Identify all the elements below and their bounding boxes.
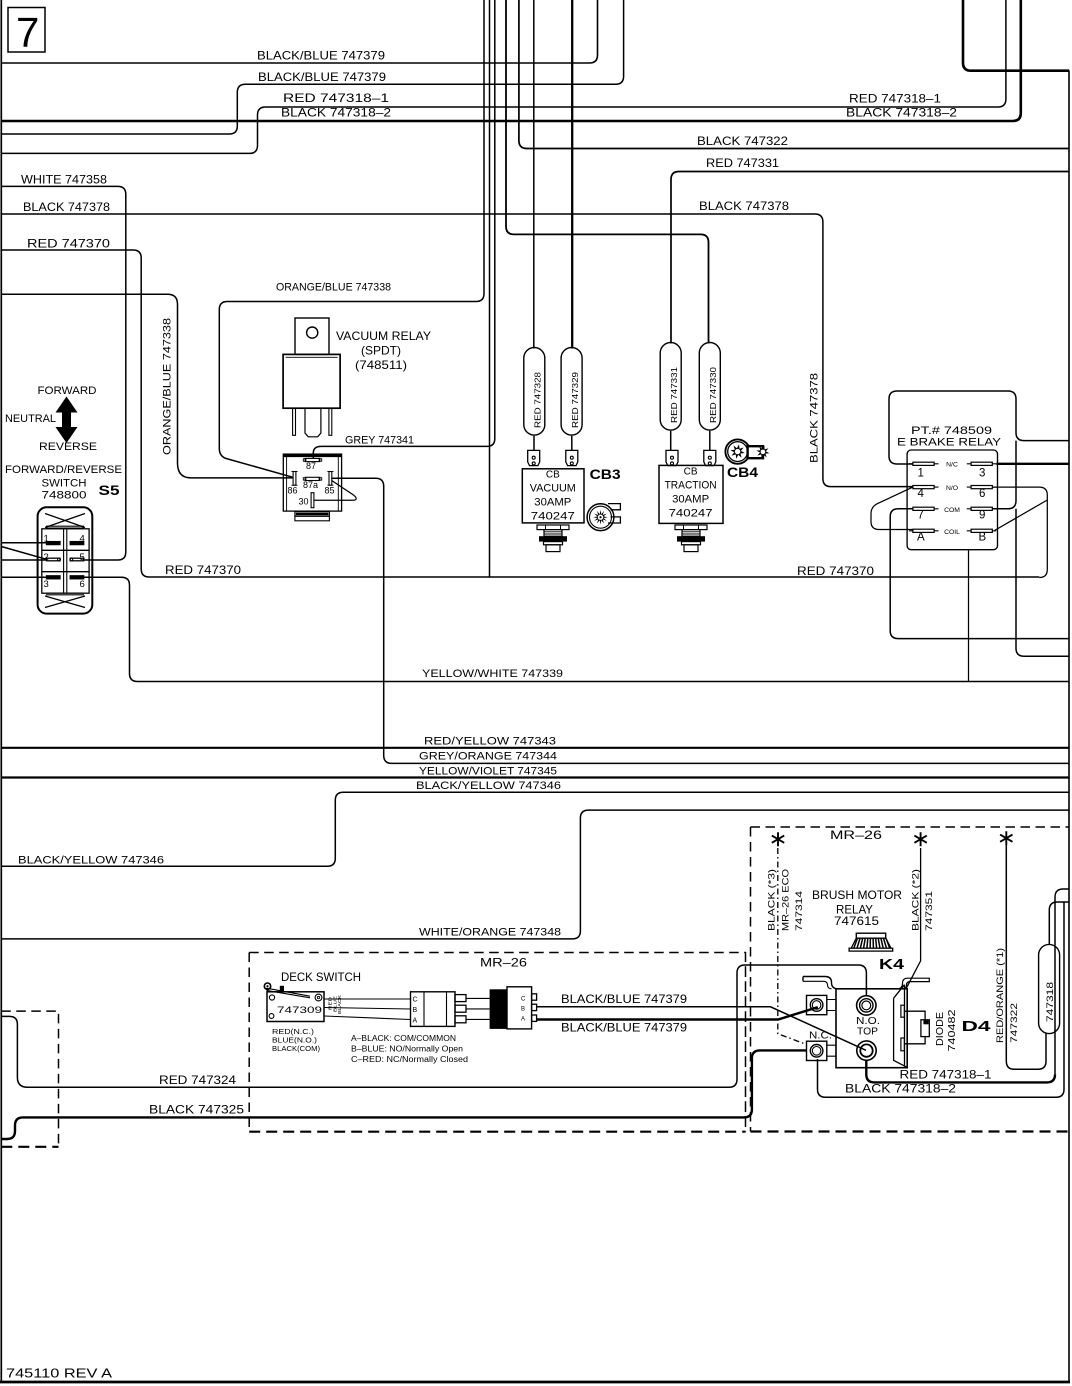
svg-text:N/O: N/O [946, 485, 958, 492]
svg-text:VACUUM: VACUUM [530, 483, 576, 495]
svg-text:747615: 747615 [834, 914, 879, 928]
svg-text:B: B [521, 1007, 525, 1013]
svg-text:2: 2 [44, 552, 49, 563]
svg-text:740482: 740482 [947, 1009, 958, 1052]
svg-text:BLACK 747318–2: BLACK 747318–2 [846, 106, 957, 120]
svg-text:BLACK 747318–2: BLACK 747318–2 [281, 106, 391, 120]
svg-text:GREY/ORANGE 747344: GREY/ORANGE 747344 [419, 751, 557, 763]
svg-text:A: A [413, 1018, 418, 1025]
svg-text:RED 747330: RED 747330 [708, 367, 718, 423]
svg-text:30AMP: 30AMP [672, 494, 709, 506]
svg-text:YELLOW/VIOLET 747345: YELLOW/VIOLET 747345 [419, 766, 557, 778]
svg-text:YELLOW/WHITE 747339: YELLOW/WHITE 747339 [422, 668, 563, 680]
svg-text:BRUSH MOTOR: BRUSH MOTOR [812, 888, 902, 902]
svg-text:(748511): (748511) [355, 358, 407, 372]
svg-text:RED 747331: RED 747331 [706, 156, 779, 170]
svg-text:MR–26: MR–26 [480, 956, 527, 970]
svg-text:87: 87 [306, 461, 316, 471]
svg-text:740247: 740247 [531, 511, 575, 523]
svg-text:RED 747328: RED 747328 [533, 372, 543, 428]
svg-text:7: 7 [918, 510, 924, 522]
svg-text:D4: D4 [962, 1018, 992, 1035]
svg-text:A–BLACK: COM/COMMON: A–BLACK: COM/COMMON [351, 1034, 456, 1043]
svg-text:BLACK 747325: BLACK 747325 [149, 1103, 244, 1117]
svg-text:86: 86 [288, 486, 298, 496]
svg-text:BLACK 747378: BLACK 747378 [809, 373, 821, 463]
svg-text:MR–26: MR–26 [830, 828, 882, 842]
svg-text:RED 747370: RED 747370 [165, 563, 241, 577]
svg-text:747351: 747351 [924, 891, 934, 931]
svg-text:WHITE 747358: WHITE 747358 [21, 173, 107, 187]
svg-text:RED 747318–1: RED 747318–1 [849, 92, 941, 106]
svg-text:747314: 747314 [794, 891, 804, 931]
svg-text:B–BLUE: NO/Normally Open: B–BLUE: NO/Normally Open [351, 1045, 463, 1054]
svg-text:ORANGE/BLUE 747338: ORANGE/BLUE 747338 [162, 318, 174, 455]
svg-text:747318: 747318 [1045, 982, 1056, 1022]
svg-text:30: 30 [299, 497, 309, 507]
svg-text:TRACTION: TRACTION [665, 480, 717, 492]
svg-text:(SPDT): (SPDT) [361, 344, 401, 358]
svg-text:A: A [521, 1017, 525, 1023]
svg-text:BLACK/YELLOW 747346: BLACK/YELLOW 747346 [416, 780, 561, 792]
svg-text:C–RED: NC/Normally Closed: C–RED: NC/Normally Closed [351, 1055, 468, 1064]
svg-text:7: 7 [16, 9, 39, 56]
svg-text:85: 85 [325, 486, 335, 496]
svg-text:BLACK 747378: BLACK 747378 [23, 200, 110, 214]
svg-text:TOP: TOP [857, 1027, 878, 1038]
svg-text:C: C [521, 997, 526, 1003]
svg-text:BLACK 747318–2: BLACK 747318–2 [845, 1082, 956, 1096]
svg-text:A: A [917, 532, 925, 544]
svg-text:N/C: N/C [946, 462, 958, 469]
svg-text:RED/YELLOW 747343: RED/YELLOW 747343 [424, 736, 556, 748]
svg-text:SWITCH: SWITCH [42, 478, 87, 490]
svg-text:9: 9 [979, 510, 985, 522]
svg-text:PT.# 748509: PT.# 748509 [911, 425, 992, 437]
svg-text:747309: 747309 [277, 1005, 322, 1016]
svg-text:RED 747331: RED 747331 [669, 367, 679, 423]
svg-text:B: B [413, 1007, 418, 1014]
svg-text:748800: 748800 [42, 490, 87, 502]
svg-text:3: 3 [44, 579, 49, 590]
svg-text:DIODE: DIODE [935, 1012, 946, 1046]
svg-text:BLACK/YELLOW 747346: BLACK/YELLOW 747346 [18, 854, 164, 866]
svg-text:BLACK(COM): BLACK(COM) [272, 1044, 321, 1053]
svg-text:DECK SWITCH: DECK SWITCH [281, 970, 361, 984]
svg-text:BLACK/BLUE 747379: BLACK/BLUE 747379 [258, 70, 386, 84]
svg-text:K4: K4 [879, 956, 905, 973]
svg-text:COM: COM [944, 507, 960, 514]
svg-text:87a: 87a [303, 480, 318, 490]
svg-text:RED/ORANGE (*1): RED/ORANGE (*1) [995, 948, 1005, 1043]
svg-text:BLACK 747378: BLACK 747378 [699, 199, 789, 213]
svg-text:RED 747318–1: RED 747318–1 [900, 1068, 992, 1082]
svg-text:NEUTRAL: NEUTRAL [5, 413, 56, 425]
svg-text:COIL: COIL [944, 529, 960, 536]
svg-text:CB: CB [684, 467, 698, 478]
svg-text:6: 6 [80, 579, 85, 590]
svg-text:BLACK (*3): BLACK (*3) [767, 869, 777, 931]
svg-text:B: B [979, 532, 987, 544]
svg-text:6: 6 [979, 488, 985, 500]
svg-text:BLACK (*2): BLACK (*2) [911, 869, 921, 931]
svg-text:1: 1 [918, 468, 924, 480]
svg-text:CB4: CB4 [727, 465, 759, 480]
svg-text:CB3: CB3 [590, 467, 622, 482]
svg-text:ORANGE/BLUE 747338: ORANGE/BLUE 747338 [276, 282, 391, 294]
svg-text:N.O.: N.O. [856, 1016, 880, 1027]
svg-text:S5: S5 [99, 482, 120, 498]
svg-text:RED 747370: RED 747370 [27, 236, 110, 250]
svg-text:3: 3 [979, 468, 985, 480]
svg-text:WHITE/ORANGE 747348: WHITE/ORANGE 747348 [419, 927, 561, 939]
svg-text:N.C.: N.C. [809, 1031, 832, 1042]
svg-text:RED 747318–1: RED 747318–1 [283, 91, 389, 105]
svg-text:REVERSE: REVERSE [39, 441, 97, 453]
svg-text:VACUUM RELAY: VACUUM RELAY [336, 329, 431, 343]
svg-text:E BRAKE RELAY: E BRAKE RELAY [897, 437, 1002, 449]
svg-text:FORWARD/REVERSE: FORWARD/REVERSE [5, 464, 122, 476]
svg-text:BLACK/BLUE 747379: BLACK/BLUE 747379 [561, 992, 687, 1006]
svg-text:BLACK 747322: BLACK 747322 [697, 134, 788, 148]
svg-text:BLACK/BLUE 747379: BLACK/BLUE 747379 [257, 49, 385, 63]
svg-text:747322: 747322 [1009, 1003, 1019, 1043]
svg-text:4: 4 [918, 488, 925, 500]
svg-text:740247: 740247 [669, 508, 713, 520]
svg-text:RED 747329: RED 747329 [570, 372, 580, 428]
svg-text:1: 1 [44, 534, 49, 545]
svg-text:BLACK/BLUE 747379: BLACK/BLUE 747379 [561, 1021, 687, 1035]
svg-text:MR–26 ECO: MR–26 ECO [780, 869, 790, 931]
svg-text:4: 4 [80, 534, 85, 545]
svg-text:C: C [413, 997, 418, 1004]
svg-text:RED 747370: RED 747370 [797, 564, 874, 578]
svg-text:5: 5 [80, 552, 85, 563]
svg-text:BLACK: BLACK [337, 994, 342, 1014]
svg-text:FORWARD: FORWARD [38, 385, 97, 397]
svg-text:745110 REV A: 745110 REV A [6, 1367, 113, 1381]
svg-text:30AMP: 30AMP [534, 497, 571, 509]
svg-text:RED 747324: RED 747324 [159, 1073, 236, 1087]
svg-text:CB: CB [546, 470, 560, 481]
svg-text:GREY 747341: GREY 747341 [345, 435, 414, 447]
